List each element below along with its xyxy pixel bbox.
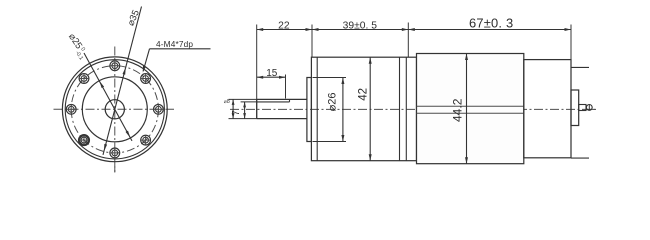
screw hole lower-right (M4) bbox=[141, 135, 151, 145]
dimension line ⌀35 with arrows bbox=[103, 7, 142, 155]
screw hole lower-left (M4) bbox=[79, 135, 89, 145]
dimension 67±0.3 bbox=[408, 16, 571, 60]
rear mounting tab bottom bbox=[571, 157, 589, 159]
dimension 15 (flat length) bbox=[257, 68, 286, 99]
shaft circle ⌀8 bbox=[105, 100, 124, 119]
svg-text:39±0. 5: 39±0. 5 bbox=[343, 21, 378, 32]
dimension ⌀8 (shaft) bbox=[224, 99, 235, 119]
bolt circle (dash-dot) bbox=[71, 66, 158, 153]
output shaft outline bbox=[257, 99, 307, 118]
gearbox boss ⌀26 (front) bbox=[307, 78, 312, 142]
screw hole upper-left (M4) bbox=[79, 74, 89, 84]
left view: vertical centerline bbox=[114, 47, 116, 173]
dimension 44.2 bbox=[450, 54, 468, 164]
screw hole top (M4) bbox=[110, 61, 120, 71]
screw hole right (M4) bbox=[154, 104, 164, 114]
terminal stub bbox=[579, 105, 592, 111]
left view: horizontal centerline bbox=[54, 108, 175, 110]
dimension 22 bbox=[257, 21, 312, 119]
gearbox rear face line bbox=[399, 57, 401, 161]
svg-text:4-M4*7dp: 4-M4*7dp bbox=[156, 39, 193, 49]
dimension 39±0.5 bbox=[312, 21, 408, 58]
motor can seam lines bbox=[417, 106, 524, 113]
side view: main centerline bbox=[230, 108, 596, 110]
motor adapter line bbox=[405, 57, 407, 161]
dimension line ⌀25 with arrows bbox=[84, 53, 132, 141]
rear mounting tab top bbox=[571, 66, 589, 68]
screw hole bottom (M4) bbox=[110, 148, 120, 158]
svg-text:⌀8: ⌀8 bbox=[224, 99, 230, 105]
label 4-M4*7dp bbox=[143, 39, 211, 73]
svg-text:⌀26: ⌀26 bbox=[326, 92, 338, 111]
flange outer circle bbox=[62, 57, 167, 162]
svg-text:15: 15 bbox=[266, 68, 278, 79]
label ⌀35 bbox=[125, 8, 141, 27]
gearbox front flange line bbox=[316, 57, 318, 161]
gearbox boss circle ⌀25 bbox=[82, 77, 147, 142]
label ⌀25 +0 -0.1 bbox=[64, 32, 90, 62]
flange ring circle bbox=[65, 60, 164, 159]
svg-text:-0.1: -0.1 bbox=[74, 50, 84, 61]
extension lines for shaft dims bbox=[229, 99, 257, 118]
svg-text:⌀35: ⌀35 bbox=[125, 8, 141, 27]
motor can outline bbox=[417, 54, 524, 164]
screw hole upper-right (M4) bbox=[141, 74, 151, 84]
dimension 42 bbox=[357, 57, 371, 161]
svg-text:44.2: 44.2 bbox=[450, 98, 464, 122]
svg-text:22: 22 bbox=[278, 21, 290, 32]
shaft D-flat line bbox=[257, 99, 290, 102]
dimension ⌀26 bbox=[313, 78, 347, 142]
dimension 7 (flat) bbox=[231, 102, 246, 119]
svg-text:7: 7 bbox=[231, 110, 242, 116]
svg-text:42: 42 bbox=[357, 88, 369, 101]
svg-text:67±0. 3: 67±0. 3 bbox=[469, 16, 513, 31]
brush housing bump bbox=[571, 90, 579, 126]
motor endbell outline bbox=[524, 60, 571, 158]
gearbox body outline bbox=[311, 57, 416, 161]
screw hole left (M4) bbox=[66, 104, 76, 114]
